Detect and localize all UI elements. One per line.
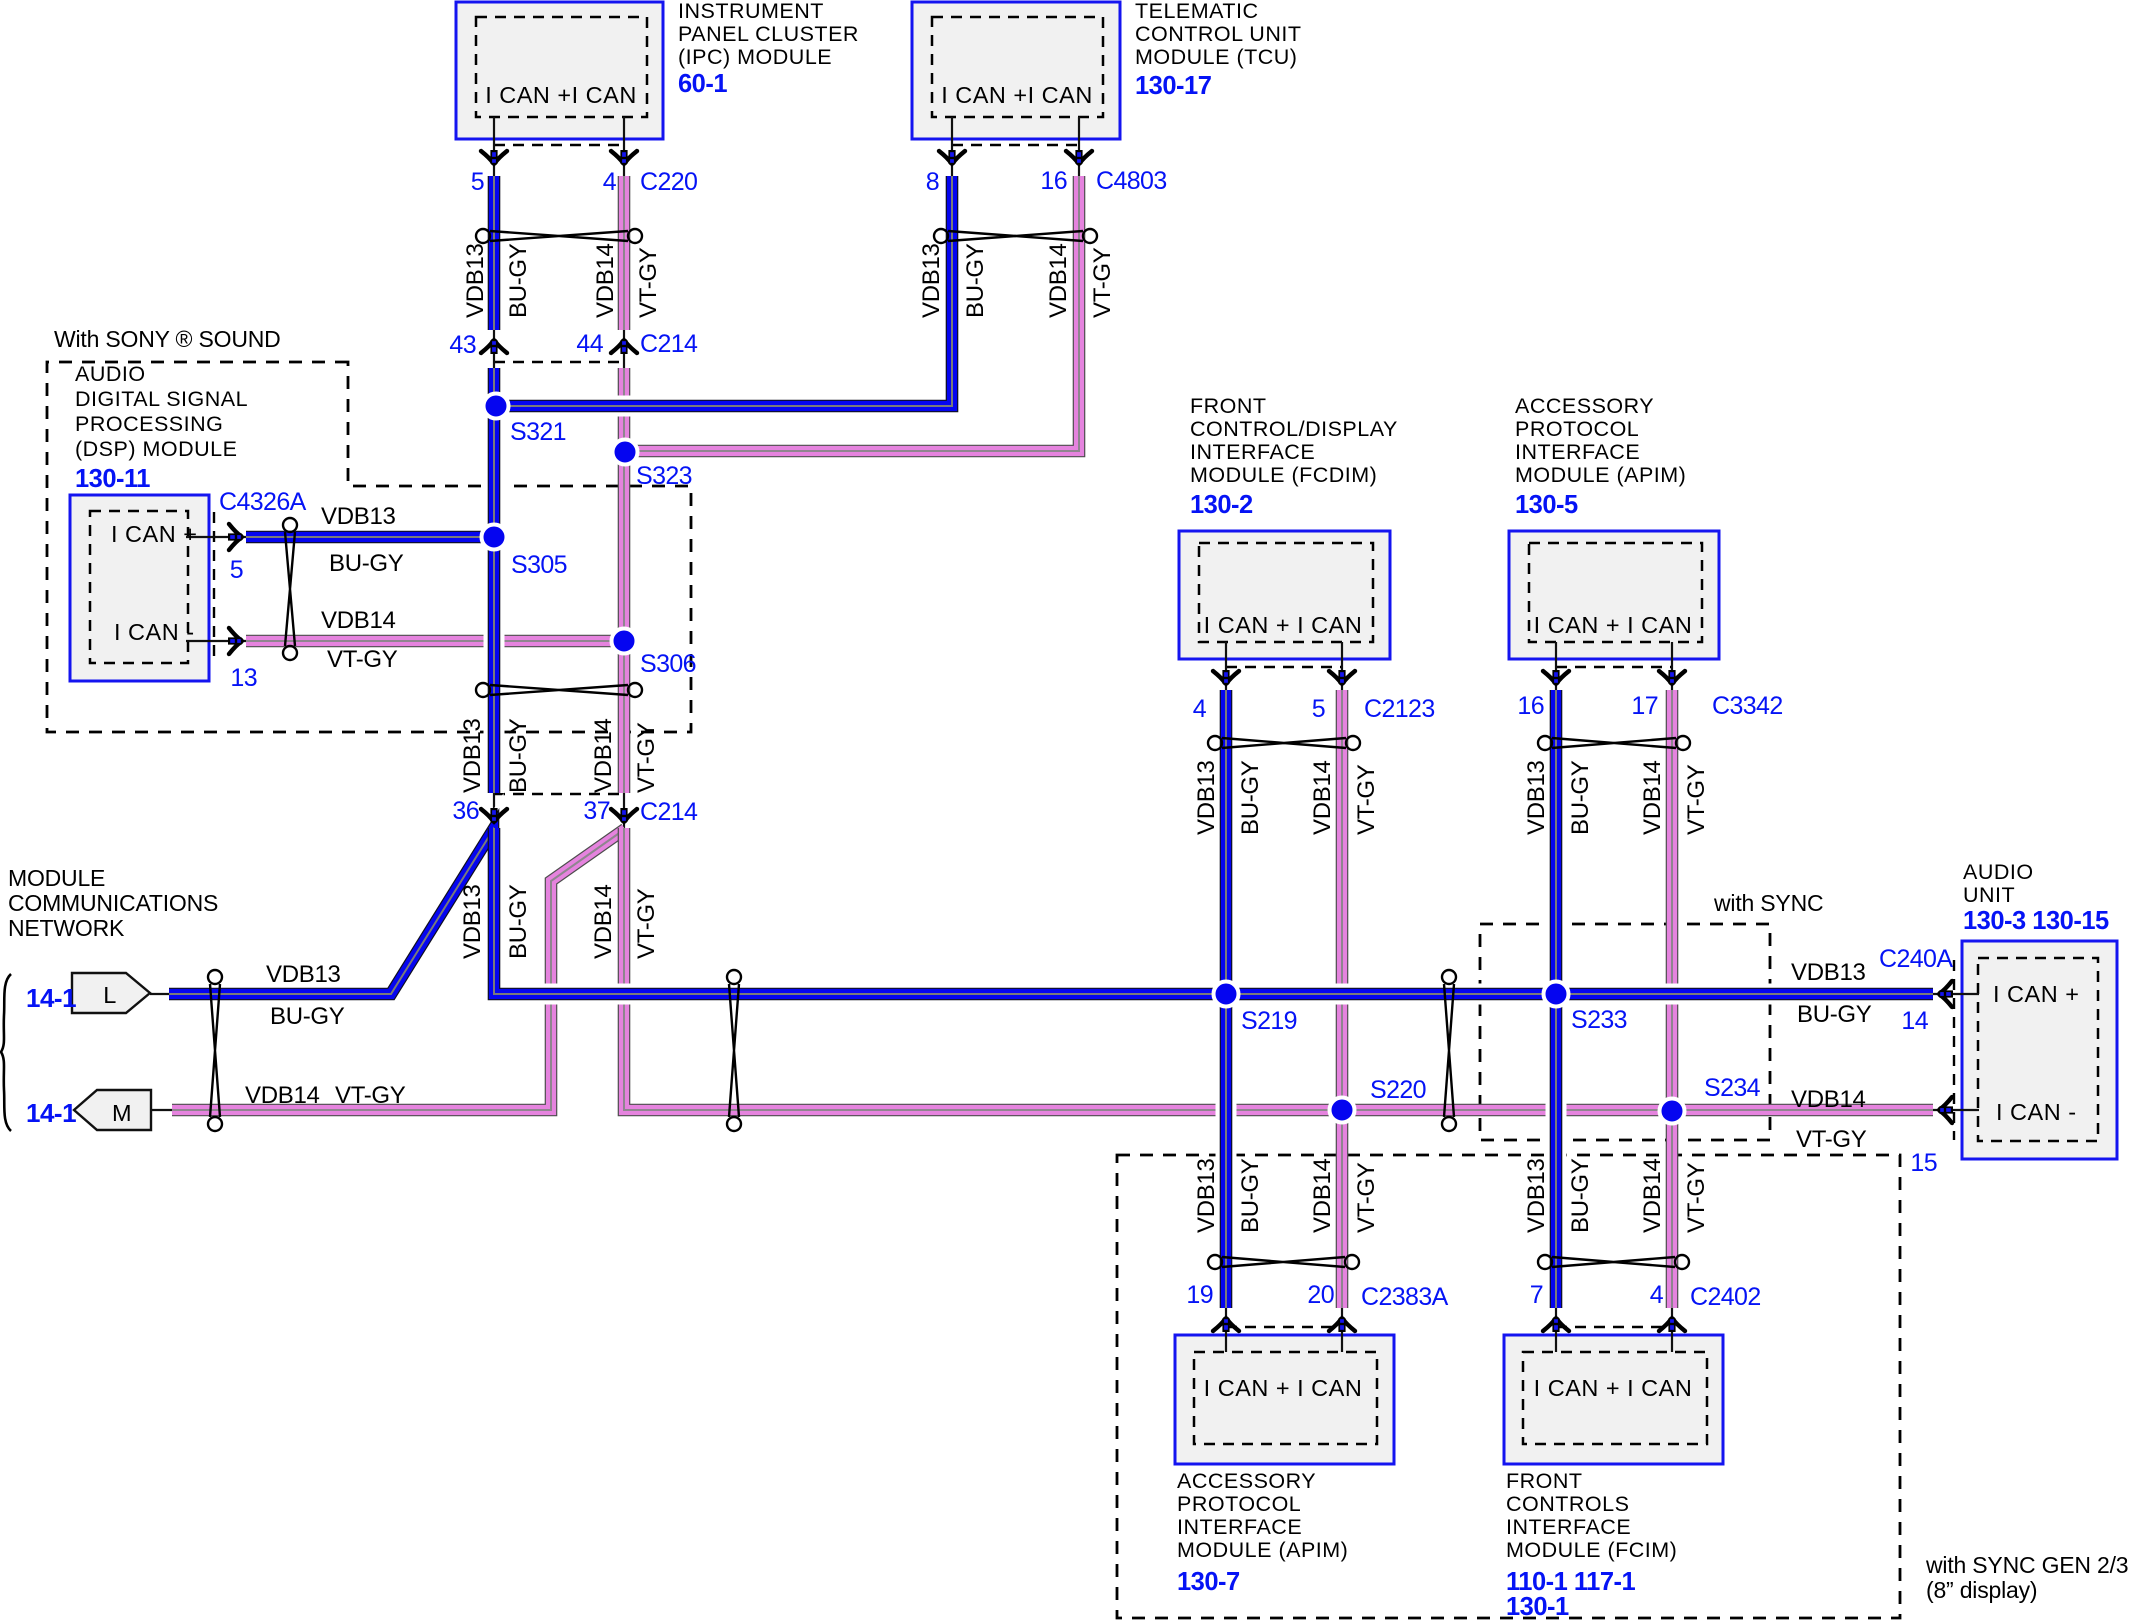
twisted pair symbol C220 pair	[476, 229, 642, 243]
With SONY SOUND option region	[47, 362, 691, 732]
twisted pair symbol C2383A pair	[1208, 1255, 1359, 1269]
svg-text:44: 44	[576, 330, 603, 358]
IPC module 60-1 box	[456, 2, 663, 139]
pin stub IPC pin 5	[493, 117, 495, 178]
svg-text:I CAN -: I CAN -	[114, 619, 195, 645]
svg-text:130-7: 130-7	[1177, 1568, 1240, 1596]
wire VDB14 from M connector up to C214 pin 37	[172, 829, 625, 1110]
connector arrow C214 pin 44	[611, 337, 637, 354]
svg-text:36: 36	[452, 797, 479, 825]
pin stub IPC pin 4	[623, 117, 625, 178]
svg-text:4: 4	[1650, 1281, 1664, 1309]
svg-text:S305: S305	[511, 551, 567, 579]
svg-text:VT-GY: VT-GY	[1089, 247, 1116, 318]
APIM module 130-5 box	[1509, 531, 1719, 659]
twisted pair symbol C2402 pair	[1538, 1255, 1689, 1269]
TCU inner connector dashed box	[932, 17, 1103, 117]
svg-text:BU-GY: BU-GY	[1237, 760, 1264, 835]
wire VDB13 APIM pin 16 column through S233	[1546, 690, 1567, 1308]
svg-text:TELEMATIC: TELEMATIC	[1135, 0, 1259, 23]
connector arrow APIM pin 16	[1543, 670, 1569, 687]
connector C214 row1 dashed line	[494, 361, 624, 363]
svg-text:VT-GY: VT-GY	[327, 646, 398, 673]
FCIM inner connector dashed box	[1523, 1352, 1707, 1444]
svg-text:BU-GY: BU-GY	[505, 243, 532, 318]
pin stub APIM 130-7 pin 19	[1225, 1306, 1227, 1352]
svg-text:5: 5	[1312, 695, 1325, 723]
connector C3342 dashed line	[1556, 666, 1672, 668]
svg-text:VDB13: VDB13	[1193, 760, 1220, 835]
svg-text:with SYNC: with SYNC	[1713, 890, 1823, 916]
connector arrow FCIM pin 4	[1659, 1315, 1685, 1332]
svg-text:INTERFACE: INTERFACE	[1177, 1515, 1302, 1539]
svg-text:VDB14: VDB14	[1639, 1158, 1666, 1233]
svg-text:MODULE (APIM): MODULE (APIM)	[1515, 463, 1686, 487]
svg-text:7: 7	[1530, 1281, 1543, 1309]
twisted pair symbol C4326A pair	[283, 518, 297, 660]
svg-text:43: 43	[449, 331, 476, 359]
svg-text:I CAN +I CAN: I CAN +I CAN	[941, 82, 1093, 108]
pin stub C214 pin 36	[493, 791, 495, 830]
svg-text:S219: S219	[1241, 1007, 1297, 1035]
svg-text:S306: S306	[640, 650, 696, 678]
svg-text:VDB14: VDB14	[1309, 1158, 1336, 1233]
svg-text:I CAN +: I CAN +	[111, 521, 197, 547]
splice S219	[1214, 982, 1239, 1007]
splice S323	[613, 440, 638, 465]
audio unit inner connector dashed box	[1978, 958, 2098, 1141]
svg-text:VT-GY: VT-GY	[635, 247, 662, 318]
svg-text:NETWORK: NETWORK	[8, 915, 125, 941]
connector arrow APIM 130-7 pin 19	[1213, 1315, 1239, 1332]
svg-text:VDB14: VDB14	[1309, 760, 1336, 835]
pin stub FCDIM pin 4	[1225, 642, 1227, 692]
svg-text:VDB13: VDB13	[459, 718, 486, 793]
svg-text:VDB14: VDB14	[1639, 760, 1666, 835]
svg-text:VDB13: VDB13	[918, 243, 945, 318]
splice S234	[1660, 1099, 1685, 1124]
splice S305	[482, 525, 507, 550]
connector arrow DSP pin 5	[228, 524, 245, 550]
svg-text:C214: C214	[640, 798, 698, 826]
svg-text:VT-GY: VT-GY	[335, 1082, 406, 1109]
svg-text:VDB13: VDB13	[1791, 959, 1866, 986]
svg-text:BU-GY: BU-GY	[1567, 1158, 1594, 1233]
pin stub DSP pin 13	[186, 640, 248, 642]
svg-text:13: 13	[230, 664, 257, 692]
svg-text:15: 15	[1910, 1149, 1937, 1177]
svg-text:VDB14: VDB14	[245, 1082, 320, 1109]
svg-text:BU-GY: BU-GY	[1237, 1158, 1264, 1233]
svg-text:C4326A: C4326A	[219, 488, 307, 516]
pin stub C214 pin 37	[623, 791, 625, 830]
svg-text:VDB14: VDB14	[590, 718, 617, 793]
wire VDB13 from C214 pin 43 through S321 and S305	[484, 368, 505, 793]
connector C4326A dashed line	[213, 512, 215, 658]
wire VDB14 from DSP module to splice S306	[246, 635, 624, 648]
svg-text:37: 37	[583, 797, 610, 825]
svg-text:60-1: 60-1	[678, 70, 727, 98]
wire VDB13 FCDIM pin 4 column through S219	[1216, 690, 1237, 1308]
connector arrow FCDIM pin 4	[1213, 670, 1239, 687]
svg-text:C240A: C240A	[1879, 945, 1953, 973]
svg-text:I CAN +I CAN: I CAN +I CAN	[485, 82, 637, 108]
svg-text:MODULE (FCDIM): MODULE (FCDIM)	[1190, 463, 1377, 487]
connector arrow C214 pin 37	[611, 808, 637, 825]
svg-text:ACCESSORY: ACCESSORY	[1515, 394, 1654, 418]
svg-text:5: 5	[230, 556, 243, 584]
svg-text:DIGITAL SIGNAL: DIGITAL SIGNAL	[75, 387, 248, 411]
connector arrow TCU pin 16	[1066, 150, 1092, 167]
pin stub C214 pin 43	[493, 328, 495, 370]
svg-text:I CAN + I CAN: I CAN + I CAN	[1204, 1375, 1363, 1401]
svg-text:C2402: C2402	[1690, 1283, 1761, 1311]
with SYNC option region	[1480, 924, 1770, 1140]
svg-text:MODULE (APIM): MODULE (APIM)	[1177, 1538, 1348, 1562]
pin stub TCU pin 8	[951, 117, 953, 178]
pin stub audio unit pin 14	[1933, 993, 1979, 995]
wire VDB13 from DSP module to splice S305	[246, 527, 494, 548]
svg-text:I CAN -: I CAN -	[1996, 1099, 2077, 1125]
splice S306	[612, 629, 637, 654]
with SYNC GEN 2/3 option region	[1117, 1155, 1900, 1618]
svg-text:17: 17	[1631, 692, 1658, 720]
svg-text:I CAN + I CAN: I CAN + I CAN	[1534, 612, 1693, 638]
svg-text:FRONT: FRONT	[1190, 394, 1267, 418]
svg-text:C2383A: C2383A	[1361, 1283, 1449, 1311]
network connector M	[74, 1090, 151, 1130]
TCU module 130-17 box	[912, 2, 1120, 139]
svg-text:MODULE (FCIM): MODULE (FCIM)	[1506, 1538, 1677, 1562]
connector arrow DSP pin 13	[228, 628, 245, 654]
connector arrow FCDIM pin 5	[1329, 670, 1355, 687]
svg-text:CONTROLS: CONTROLS	[1506, 1492, 1629, 1516]
FCDIM inner connector dashed box	[1199, 543, 1373, 642]
svg-text:4: 4	[603, 168, 617, 196]
svg-text:MODULE: MODULE	[8, 865, 105, 891]
twisted pair symbol C4803 pair	[934, 229, 1097, 243]
svg-text:BU-GY: BU-GY	[1797, 1001, 1872, 1028]
wire VDB14 from TCU pin 16 to splice S323	[625, 176, 1079, 451]
pin stub APIM pin 16	[1555, 642, 1557, 692]
svg-text:S321: S321	[510, 418, 566, 446]
svg-text:C3342: C3342	[1712, 692, 1783, 720]
pin stub FCIM pin 7	[1555, 1306, 1557, 1352]
svg-text:16: 16	[1517, 692, 1544, 720]
connector C4803 dashed line	[952, 144, 1079, 146]
pin stub APIM pin 17	[1671, 642, 1673, 692]
pin stub audio unit pin 15	[1933, 1109, 1979, 1111]
pin stub connector L	[150, 993, 170, 995]
svg-text:130-17: 130-17	[1135, 72, 1212, 100]
svg-text:With SONY ® SOUND: With SONY ® SOUND	[54, 326, 281, 352]
svg-text:COMMUNICATIONS: COMMUNICATIONS	[8, 890, 218, 916]
APIM 130-7 inner connector dashed box	[1194, 1352, 1377, 1444]
APIM inner connector dashed box	[1529, 543, 1702, 642]
svg-text:S220: S220	[1370, 1076, 1426, 1104]
pin stub TCU pin 16	[1078, 117, 1080, 178]
svg-text:14: 14	[1901, 1007, 1928, 1035]
svg-text:INTERFACE: INTERFACE	[1515, 440, 1640, 464]
svg-text:130-11: 130-11	[75, 465, 150, 493]
pin stub FCIM pin 4	[1671, 1306, 1673, 1352]
svg-text:(DSP) MODULE: (DSP) MODULE	[75, 437, 237, 461]
svg-text:UNIT: UNIT	[1963, 883, 2015, 907]
svg-text:CONTROL UNIT: CONTROL UNIT	[1135, 22, 1301, 46]
svg-text:S323: S323	[636, 462, 692, 490]
connector arrow audio unit pin 14	[1936, 981, 1953, 1007]
connector C2402 dashed line	[1556, 1326, 1672, 1328]
svg-text:PROCESSING: PROCESSING	[75, 412, 223, 436]
svg-text:FRONT: FRONT	[1506, 1469, 1583, 1493]
svg-text:PROTOCOL: PROTOCOL	[1515, 417, 1639, 441]
svg-text:VDB14: VDB14	[1791, 1086, 1866, 1113]
svg-text:CONTROL/DISPLAY: CONTROL/DISPLAY	[1190, 417, 1398, 441]
svg-text:BU-GY: BU-GY	[1567, 760, 1594, 835]
left brace	[1, 974, 11, 1131]
wire VDB13 BU-GY IPC pin 5 segment	[484, 176, 505, 330]
svg-text:VT-GY: VT-GY	[1353, 1162, 1380, 1233]
svg-text:AUDIO: AUDIO	[1963, 860, 2034, 884]
svg-text:VDB14: VDB14	[590, 884, 617, 959]
connector C214 row2 dashed line	[494, 793, 624, 795]
svg-text:(IPC) MODULE: (IPC) MODULE	[678, 45, 832, 69]
svg-text:130-1: 130-1	[1506, 1593, 1569, 1621]
svg-text:14-1: 14-1	[26, 1098, 76, 1128]
svg-text:BU-GY: BU-GY	[505, 718, 532, 793]
wire VDB14 VT-GY IPC pin 4 segment	[618, 176, 631, 330]
twisted pair symbol C3342 pair	[1538, 736, 1690, 750]
svg-text:VDB13: VDB13	[266, 961, 341, 988]
twisted pair symbol S305/S306 pair	[476, 683, 642, 697]
svg-text:(8” display): (8” display)	[1926, 1577, 2037, 1603]
svg-text:110-1 117-1: 110-1 117-1	[1506, 1568, 1636, 1596]
svg-text:C2123: C2123	[1364, 695, 1435, 723]
svg-text:VDB13: VDB13	[459, 884, 486, 959]
svg-text:VDB14: VDB14	[592, 243, 619, 318]
svg-text:S233: S233	[1571, 1006, 1627, 1034]
svg-text:ACCESSORY: ACCESSORY	[1177, 1469, 1316, 1493]
svg-text:MODULE (TCU): MODULE (TCU)	[1135, 45, 1297, 69]
svg-text:VT-GY: VT-GY	[1683, 764, 1710, 835]
pin stub APIM 130-7 pin 20	[1341, 1306, 1343, 1352]
twisted pair symbol L/M pair	[208, 970, 222, 1131]
pin stub C214 pin 44	[623, 328, 625, 370]
connector arrow APIM 130-7 pin 20	[1329, 1315, 1355, 1332]
svg-text:14-1: 14-1	[26, 983, 76, 1013]
DSP module 130-11 box	[70, 495, 209, 681]
svg-text:BU-GY: BU-GY	[270, 1003, 345, 1030]
twisted pair symbol C2123 pair	[1208, 736, 1360, 750]
twisted pair symbol bus pair left	[727, 970, 741, 1131]
svg-text:VT-GY: VT-GY	[1353, 764, 1380, 835]
svg-text:VDB13: VDB13	[321, 503, 396, 530]
FCDIM module 130-2 box	[1179, 531, 1390, 659]
connector arrow audio unit pin 15	[1936, 1097, 1953, 1123]
wire VDB13 from TCU pin 8 to splice S321	[496, 176, 952, 406]
svg-text:VDB14: VDB14	[1045, 243, 1072, 318]
connector C2123 dashed line	[1226, 666, 1342, 668]
twisted pair symbol bus pair right	[1442, 970, 1456, 1131]
svg-text:C220: C220	[640, 168, 697, 196]
connector arrow IPC pin 4	[611, 150, 637, 167]
connector C240A dashed line	[1953, 960, 1955, 1140]
pin stub FCDIM pin 5	[1341, 642, 1343, 692]
svg-text:PANEL CLUSTER: PANEL CLUSTER	[678, 22, 859, 46]
svg-text:I CAN + I CAN: I CAN + I CAN	[1534, 1375, 1693, 1401]
svg-text:16: 16	[1040, 167, 1067, 195]
svg-text:I CAN + I CAN: I CAN + I CAN	[1204, 612, 1363, 638]
connector arrow IPC pin 5	[481, 150, 507, 167]
wire VDB14 bus from C214 pin 37 to audio unit pin 15	[624, 828, 1933, 1110]
svg-text:VT-GY: VT-GY	[1683, 1162, 1710, 1233]
svg-text:with SYNC GEN 2/3: with SYNC GEN 2/3	[1925, 1552, 2128, 1578]
svg-text:VT-GY: VT-GY	[633, 888, 660, 959]
svg-text:4: 4	[1193, 695, 1207, 723]
connector arrow C214 pin 36	[481, 808, 507, 825]
wire VDB13 from L connector up to C214 pin 36	[169, 830, 493, 994]
svg-text:VDB13: VDB13	[1193, 1158, 1220, 1233]
svg-text:C4803: C4803	[1096, 167, 1167, 195]
svg-text:130-3 130-15: 130-3 130-15	[1963, 907, 2109, 935]
connector arrow TCU pin 8	[939, 150, 965, 167]
svg-text:AUDIO: AUDIO	[75, 362, 146, 386]
svg-text:L: L	[103, 982, 117, 1008]
wire VDB13 bus from C214 pin 36 to audio unit pin 14	[494, 828, 1933, 994]
svg-text:130-2: 130-2	[1190, 491, 1253, 519]
connector arrow C214 pin 43	[481, 337, 507, 354]
svg-text:VDB13: VDB13	[462, 243, 489, 318]
svg-text:C214: C214	[640, 330, 698, 358]
svg-text:19: 19	[1186, 1281, 1213, 1309]
svg-text:VDB13: VDB13	[1523, 760, 1550, 835]
connector C2383A dashed line	[1226, 1326, 1342, 1328]
svg-text:I CAN +: I CAN +	[1993, 981, 2079, 1007]
svg-text:S234: S234	[1704, 1074, 1761, 1102]
wire VDB14 from C214 pin 44 through S323 and S306	[618, 368, 631, 793]
svg-text:BU-GY: BU-GY	[962, 243, 989, 318]
svg-text:PROTOCOL: PROTOCOL	[1177, 1492, 1301, 1516]
svg-text:INSTRUMENT: INSTRUMENT	[678, 0, 824, 23]
splice S321	[484, 394, 509, 419]
svg-text:VDB14: VDB14	[321, 607, 396, 634]
svg-text:BU-GY: BU-GY	[505, 884, 532, 959]
svg-text:BU-GY: BU-GY	[329, 550, 404, 577]
FCIM module box	[1504, 1335, 1723, 1464]
DSP inner connector dashed box	[90, 511, 188, 663]
audio unit 130-3 130-15 box	[1962, 941, 2117, 1159]
svg-text:20: 20	[1307, 1281, 1334, 1309]
connector arrow APIM pin 17	[1659, 670, 1685, 687]
splice S220	[1330, 1098, 1355, 1123]
network connector L	[72, 973, 150, 1013]
pin stub connector M	[151, 1109, 173, 1111]
connector C220 dashed line	[494, 144, 624, 146]
svg-text:5: 5	[471, 168, 484, 196]
connector arrow FCIM pin 7	[1543, 1315, 1569, 1332]
pin stub DSP pin 5	[186, 536, 248, 538]
wire VDB14 FCDIM pin 5 column through S220	[1336, 690, 1349, 1308]
APIM module 130-7 box	[1175, 1335, 1394, 1464]
svg-text:130-5: 130-5	[1515, 491, 1578, 519]
splice S233	[1544, 982, 1569, 1007]
IPC inner connector dashed box	[476, 17, 647, 117]
svg-text:8: 8	[926, 168, 939, 196]
wire VDB14 APIM pin 17 column through S234	[1666, 690, 1679, 1308]
svg-text:VDB13: VDB13	[1523, 1158, 1550, 1233]
svg-text:INTERFACE: INTERFACE	[1506, 1515, 1631, 1539]
svg-text:M: M	[112, 1100, 132, 1126]
svg-text:VT-GY: VT-GY	[633, 722, 660, 793]
svg-text:INTERFACE: INTERFACE	[1190, 440, 1315, 464]
svg-text:VT-GY: VT-GY	[1796, 1126, 1867, 1153]
